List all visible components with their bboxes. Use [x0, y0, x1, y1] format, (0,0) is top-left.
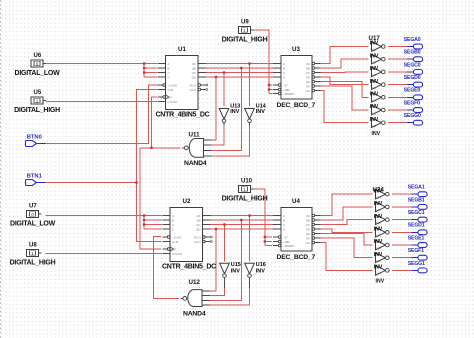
svg-text:SEGF1: SEGF1	[408, 248, 424, 254]
svg-text:INV: INV	[374, 265, 383, 271]
svg-text:U7: U7	[29, 203, 37, 209]
svg-text:~LT: ~LT	[283, 235, 288, 239]
svg-text:U16: U16	[256, 262, 266, 268]
svg-text:COUNT: COUNT	[172, 252, 183, 256]
svg-text:OE: OE	[306, 232, 310, 236]
svg-text:U8: U8	[29, 242, 37, 248]
svg-text:U17: U17	[369, 35, 381, 42]
svg-text:QC: QC	[192, 71, 196, 75]
svg-text:OD: OD	[306, 227, 310, 231]
svg-text:SEGC1: SEGC1	[408, 210, 425, 216]
svg-text:CNTR_4BIN5_DC: CNTR_4BIN5_DC	[156, 112, 210, 119]
svg-text:SEGG1: SEGG1	[408, 261, 425, 267]
svg-text:CNTR_4BIN5_DC: CNTR_4BIN5_DC	[162, 264, 216, 271]
svg-text:CP: CP	[172, 247, 176, 251]
svg-text:INV: INV	[370, 117, 379, 123]
svg-text:U24: U24	[375, 259, 381, 263]
svg-text:U17: U17	[371, 86, 377, 90]
svg-text:INV: INV	[370, 66, 379, 72]
svg-text:OC: OC	[306, 223, 310, 227]
svg-text:OA: OA	[306, 214, 310, 218]
svg-text:OA: OA	[306, 62, 310, 66]
svg-text:C: C	[172, 223, 174, 227]
svg-text:INV: INV	[374, 239, 383, 245]
svg-text:DIGITAL_LOW: DIGITAL_LOW	[15, 70, 61, 77]
svg-text:OG: OG	[306, 241, 311, 245]
svg-text:C: C	[283, 223, 285, 227]
svg-text:OC: OC	[306, 71, 310, 75]
svg-text:U1: U1	[178, 46, 186, 53]
svg-text:~LT: ~LT	[283, 83, 288, 87]
svg-text:SEGC0: SEGC0	[404, 62, 421, 68]
svg-text:U6: U6	[34, 53, 42, 59]
svg-text:U3: U3	[292, 46, 300, 53]
svg-text:QB: QB	[196, 218, 200, 222]
svg-text:A: A	[283, 62, 285, 66]
svg-text:SEGE0: SEGE0	[404, 88, 421, 94]
svg-text:DEC_BCD_7: DEC_BCD_7	[277, 254, 316, 261]
svg-text:D: D	[172, 227, 174, 231]
svg-text:OD: OD	[306, 75, 310, 79]
svg-text:B: B	[168, 66, 170, 70]
svg-text:CP: CP	[168, 95, 172, 99]
svg-text:RCO: RCO	[190, 83, 197, 87]
svg-text:~BI/RBO: ~BI/RBO	[283, 92, 295, 96]
svg-text:A: A	[283, 214, 285, 218]
svg-text:U24: U24	[373, 186, 385, 193]
svg-text:SEGA1: SEGA1	[408, 185, 425, 191]
svg-text:INV: INV	[256, 109, 265, 115]
svg-text:~LOAD: ~LOAD	[172, 235, 182, 239]
svg-text:U5: U5	[34, 90, 42, 96]
svg-text:OG: OG	[306, 89, 311, 93]
svg-text:QB: QB	[192, 66, 196, 70]
svg-text:U24: U24	[375, 221, 381, 225]
svg-text:QD: QD	[196, 227, 200, 231]
svg-text:~BI/RBO: ~BI/RBO	[283, 244, 295, 248]
svg-text:C: C	[168, 71, 170, 75]
svg-text:INV: INV	[370, 79, 379, 85]
svg-text:SEGD1: SEGD1	[408, 223, 425, 229]
svg-text:INV: INV	[230, 109, 239, 115]
svg-text:SEGE1: SEGE1	[408, 235, 425, 241]
svg-text:INV: INV	[374, 252, 383, 258]
svg-text:U2: U2	[183, 198, 191, 205]
svg-text:U24: U24	[375, 246, 381, 250]
svg-text:U24: U24	[375, 196, 381, 200]
svg-text:QC: QC	[196, 223, 200, 227]
svg-text:COUNT: COUNT	[168, 100, 179, 104]
svg-text:DIGITAL_HIGH: DIGITAL_HIGH	[10, 260, 56, 267]
svg-text:INV: INV	[376, 278, 385, 284]
svg-text:CCO: CCO	[190, 88, 197, 92]
svg-text:DIGITAL_LOW: DIGITAL_LOW	[10, 221, 56, 228]
svg-text:CLB: CLB	[168, 88, 174, 92]
svg-text:NAND4: NAND4	[183, 311, 206, 318]
svg-text:SEGD0: SEGD0	[404, 75, 421, 81]
svg-text:QA: QA	[196, 214, 200, 218]
svg-text:U12: U12	[189, 279, 201, 286]
svg-text:INV: INV	[374, 201, 383, 207]
svg-text:D: D	[283, 227, 285, 231]
svg-text:~LOAD: ~LOAD	[168, 83, 178, 87]
svg-text:SEGA0: SEGA0	[404, 37, 421, 43]
svg-text:SEGF0: SEGF0	[404, 100, 420, 106]
svg-text:INV: INV	[231, 269, 240, 275]
svg-text:SEGB0: SEGB0	[404, 50, 421, 56]
svg-text:U17: U17	[371, 48, 377, 52]
svg-text:D: D	[168, 75, 170, 79]
svg-text:DEC_BCD_7: DEC_BCD_7	[277, 102, 316, 109]
svg-text:U4: U4	[292, 198, 300, 205]
svg-text:U24: U24	[375, 234, 381, 238]
svg-text:QD: QD	[192, 75, 196, 79]
svg-text:OE: OE	[306, 80, 310, 84]
svg-text:INV: INV	[372, 131, 381, 137]
svg-text:U24: U24	[375, 272, 381, 276]
svg-text:D: D	[283, 75, 285, 79]
svg-text:NAND4: NAND4	[184, 160, 207, 167]
svg-text:U24: U24	[375, 208, 381, 212]
svg-text:U11: U11	[189, 132, 201, 139]
svg-text:QA: QA	[192, 62, 196, 66]
svg-text:U10: U10	[241, 178, 253, 184]
svg-text:U15: U15	[231, 262, 241, 268]
svg-text:INV: INV	[370, 92, 379, 98]
svg-text:INV: INV	[374, 214, 383, 220]
svg-text:U17: U17	[371, 99, 377, 103]
svg-text:BTN0: BTN0	[27, 134, 42, 140]
svg-text:CCO: CCO	[194, 240, 201, 244]
svg-text:SEGB1: SEGB1	[408, 197, 425, 203]
svg-text:C: C	[283, 71, 285, 75]
svg-text:INV: INV	[370, 53, 379, 59]
svg-text:RCO: RCO	[194, 235, 201, 239]
svg-text:U17: U17	[371, 61, 377, 65]
svg-text:DIGITAL_HIGH: DIGITAL_HIGH	[222, 196, 268, 203]
svg-text:DIGITAL_HIGH: DIGITAL_HIGH	[222, 37, 268, 44]
svg-text:A: A	[172, 214, 174, 218]
svg-text:OF: OF	[306, 84, 310, 88]
svg-text:BTN1: BTN1	[27, 173, 43, 179]
svg-text:INV: INV	[370, 104, 379, 110]
svg-text:A: A	[168, 62, 170, 66]
svg-text:OF: OF	[306, 236, 310, 240]
svg-text:B: B	[283, 66, 285, 70]
svg-text:U17: U17	[371, 111, 377, 115]
svg-text:INV: INV	[256, 269, 265, 275]
svg-text:U17: U17	[371, 73, 377, 77]
svg-text:DIGITAL_HIGH: DIGITAL_HIGH	[14, 107, 60, 114]
svg-text:B: B	[283, 218, 285, 222]
svg-text:INV: INV	[374, 227, 383, 233]
svg-text:CLB: CLB	[172, 240, 178, 244]
svg-text:SEGG0: SEGG0	[404, 113, 421, 119]
svg-text:OB: OB	[306, 218, 310, 222]
svg-text:OB: OB	[306, 66, 310, 70]
svg-text:U17: U17	[371, 124, 377, 128]
svg-text:U9: U9	[241, 19, 249, 25]
svg-text:B: B	[172, 218, 174, 222]
